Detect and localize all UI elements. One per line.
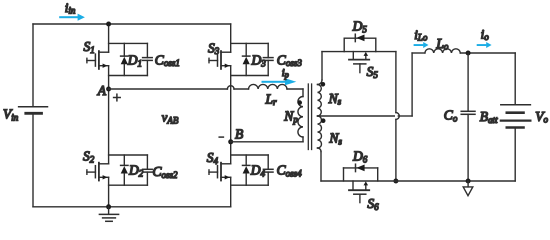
- wire S3 cell bottom: [231, 75, 269, 77]
- wire output rail left: [412, 52, 425, 54]
- label Coss1: [155, 52, 180, 68]
- wire S2 cell top: [109, 154, 148, 156]
- diode D5 branch left: [343, 38, 345, 51]
- label D1: [127, 53, 142, 69]
- svg-text:Batt: Batt: [480, 109, 498, 125]
- polarity dot secondary bottom: [321, 118, 326, 123]
- diode D5: [344, 34, 376, 41]
- wire output rail right: [460, 52, 515, 54]
- polarity dot secondary top: [321, 82, 326, 87]
- label i_in: [65, 0, 76, 15]
- svg-text:ip: ip: [282, 68, 289, 79]
- svg-text:vAB: vAB: [162, 111, 179, 126]
- svg-text:Vo: Vo: [535, 109, 548, 125]
- label S2: [83, 149, 95, 165]
- wire Lr to primary: [287, 88, 303, 90]
- diode D2: [121, 155, 128, 185]
- label Coss3: [277, 52, 303, 68]
- label D4: [250, 163, 266, 179]
- wire center tap riser: [411, 53, 413, 116]
- svg-text:B: B: [235, 126, 243, 141]
- node B: [228, 139, 233, 144]
- wire S2 cell bottom: [109, 184, 148, 186]
- label Vo: [535, 109, 548, 125]
- svg-text:Ns: Ns: [328, 131, 342, 147]
- svg-text:Co: Co: [444, 108, 458, 124]
- wire leg1 drain segment: [108, 24, 110, 52]
- label Coss4: [277, 163, 303, 179]
- svg-text:S6: S6: [367, 196, 379, 212]
- ground secondary: [463, 181, 473, 196]
- junction dot bottom rail: [106, 204, 111, 209]
- ground primary: [99, 207, 118, 222]
- wire leg2 middle: [230, 66, 232, 164]
- current arrow i_in: [59, 14, 85, 21]
- transformer primary winding Np: [298, 97, 303, 138]
- svg-text:D4: D4: [250, 163, 266, 179]
- capacitor Coss3: [263, 43, 273, 75]
- wire secondary top hook: [318, 80, 323, 85]
- svg-text:iLo: iLo: [414, 27, 428, 42]
- svg-text:Coss2: Coss2: [153, 164, 179, 180]
- svg-text:Coss3: Coss3: [277, 52, 303, 68]
- wire node A rail left part: [109, 88, 228, 90]
- wire S3 cell top: [231, 42, 269, 44]
- wire S1 cell bottom: [109, 75, 148, 77]
- wire primary top stub: [302, 89, 304, 97]
- transformer secondary winding Ns top: [318, 85, 322, 117]
- label S3: [208, 40, 220, 56]
- svg-text:iin: iin: [65, 0, 76, 15]
- svg-text:Coss1: Coss1: [155, 52, 180, 68]
- transistor Q S6: [349, 181, 369, 203]
- diode D3: [243, 43, 250, 75]
- svg-text:Lr: Lr: [265, 91, 278, 107]
- svg-text:Coss4: Coss4: [277, 163, 303, 179]
- wire leg1 bottom: [108, 177, 110, 207]
- wire secondary bottom terminal: [320, 152, 322, 182]
- diode D5 branch right: [375, 38, 377, 51]
- svg-text:S4: S4: [207, 150, 219, 166]
- wire secondary top terminal: [321, 52, 323, 80]
- label S5: [367, 64, 379, 80]
- wire hop over center tap: [396, 113, 399, 120]
- inductor Lr: [249, 84, 288, 89]
- capacitor Coss2: [143, 155, 153, 185]
- label Ns bottom: [328, 131, 342, 147]
- label Coss2: [153, 164, 179, 180]
- wire secondary bottom rail: [321, 180, 515, 182]
- label vAB: [162, 111, 179, 126]
- current arrow i_p: [262, 78, 297, 85]
- junction dot top rail leg1: [106, 22, 111, 27]
- diode D4: [243, 155, 250, 185]
- label i_p: [282, 68, 289, 79]
- svg-text:Ns: Ns: [328, 91, 342, 107]
- svg-text:Np: Np: [283, 109, 298, 125]
- wire leg2 bottom: [230, 177, 232, 207]
- svg-text:D5: D5: [352, 19, 368, 35]
- current arrow i_o: [477, 42, 492, 48]
- svg-text:Lo: Lo: [435, 36, 449, 52]
- wire left rail upper: [32, 24, 34, 107]
- inductor Lo: [425, 49, 460, 53]
- label Ns top: [328, 91, 342, 107]
- wire secondary bottom hook: [318, 148, 322, 152]
- label Lo: [435, 36, 449, 52]
- wire leg2 top segment: [230, 24, 232, 52]
- label A: [97, 83, 107, 98]
- minus sign vAB: [219, 136, 223, 138]
- svg-text:A: A: [97, 83, 107, 98]
- node A: [106, 87, 111, 92]
- wire S1 cell top: [109, 42, 148, 44]
- junction dot output node: [466, 51, 471, 56]
- junction dot rectifier output: [393, 179, 398, 184]
- svg-text:S2: S2: [83, 149, 95, 165]
- capacitor Coss4: [263, 155, 273, 185]
- transistor Q S4: [209, 163, 231, 181]
- diode D6 branch left: [343, 168, 345, 181]
- label S6: [367, 196, 379, 212]
- wire bottom rail primary: [33, 206, 231, 208]
- transistor Q S3: [209, 51, 231, 69]
- wire center tap right part: [398, 115, 412, 117]
- battery Vin: [19, 107, 48, 114]
- label Batt: [480, 109, 498, 125]
- wire center tap left part: [318, 115, 395, 117]
- label D6: [352, 149, 368, 165]
- label i_o: [481, 27, 490, 42]
- label D5: [352, 19, 368, 35]
- wire S4 cell bottom: [231, 184, 269, 186]
- polarity dot primary: [297, 100, 302, 105]
- wire S4 cell top: [231, 154, 269, 156]
- label S1: [84, 39, 95, 55]
- wire hop over leg2: [227, 86, 234, 89]
- transformer secondary winding Ns bottom: [318, 116, 322, 148]
- svg-text:D2: D2: [128, 163, 144, 179]
- junction dot ground node: [466, 179, 471, 184]
- label Vin: [3, 107, 19, 123]
- label i_Lo: [414, 27, 428, 42]
- plus sign vAB: [114, 94, 121, 101]
- wire node A rail right part: [234, 88, 249, 90]
- transistor Q S1: [87, 51, 109, 69]
- label Np: [283, 109, 298, 125]
- svg-text:io: io: [481, 27, 490, 42]
- svg-text:S5: S5: [367, 64, 379, 80]
- diode D1: [121, 43, 128, 75]
- label D2: [128, 163, 144, 179]
- label S4: [207, 150, 219, 166]
- wire secondary top rail: [322, 51, 396, 53]
- capacitor Coss1: [143, 43, 153, 75]
- wire rectifier common leg upper: [395, 52, 397, 113]
- label Lr: [265, 91, 278, 107]
- label D3: [251, 53, 267, 69]
- label Co: [444, 108, 458, 124]
- wire rectifier common leg lower: [395, 119, 397, 181]
- svg-text:Vin: Vin: [3, 107, 19, 123]
- svg-text:D6: D6: [352, 149, 368, 165]
- wire node B rail: [231, 141, 303, 143]
- svg-text:S1: S1: [84, 39, 95, 55]
- current arrow i_Lo: [414, 42, 429, 48]
- wire top rail: [33, 23, 231, 25]
- diode D6 branch right: [377, 168, 379, 181]
- wire left rail lower: [32, 113, 34, 207]
- transistor Q S5: [349, 52, 369, 73]
- svg-text:S3: S3: [208, 40, 220, 56]
- svg-text:D1: D1: [127, 53, 142, 69]
- transistor Q S2: [87, 163, 109, 181]
- transformer core: [308, 84, 311, 150]
- wire primary bottom stub: [302, 137, 304, 142]
- capacitor Co: [461, 53, 475, 181]
- label B: [235, 126, 243, 141]
- wire leg1 middle: [108, 66, 110, 164]
- diode D6: [344, 164, 378, 171]
- battery Batt: [501, 53, 531, 181]
